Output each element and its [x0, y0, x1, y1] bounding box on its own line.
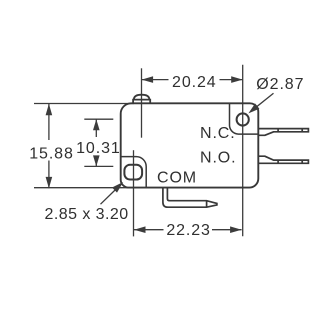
COM terminal (bent blade) — [163, 187, 217, 207]
N.C. mounting hole circle (Ø2.87) — [237, 113, 249, 125]
svg-text:COM: COM — [157, 169, 197, 186]
plunger button on body top — [133, 95, 150, 104]
N.C. terminal blade — [258, 129, 308, 136]
wire centerline through COM slot (22.23 left extension) — [133, 150, 135, 236]
svg-text:20.24: 20.24 — [172, 74, 217, 91]
dimension 15.88 line — [48, 104, 50, 140]
dimension 20.24 line — [142, 79, 169, 81]
wire bottom extension line for 15.88 — [34, 187, 134, 189]
dimension 22.23 line — [134, 229, 164, 231]
switch body outline — [121, 103, 259, 187]
svg-text:22.23: 22.23 — [166, 222, 211, 239]
COM slot hole (2.85 x 3.20) — [124, 165, 142, 180]
COM slot boss contour — [121, 157, 147, 188]
svg-text:N.C.: N.C. — [200, 125, 236, 142]
wire centerline through N.C. hole (20.24/22.23 right extension) — [242, 65, 244, 236]
svg-text:Ø2.87: Ø2.87 — [256, 76, 304, 93]
svg-text:15.88: 15.88 — [29, 145, 74, 162]
dimension 10.31 line — [95, 119, 97, 137]
wire top extension line for 15.88 — [34, 103, 134, 105]
dimension leader 2.85 x 3.20 — [101, 189, 117, 205]
wire centerline through plunger (20.24 left extension) — [141, 68, 143, 137]
N.O. terminal blade — [258, 156, 308, 163]
svg-text:10.31: 10.31 — [76, 140, 121, 157]
svg-text:N.O.: N.O. — [200, 149, 237, 166]
dimension 10.31 ticks — [84, 118, 113, 120]
dimension leader Ø2.87 — [253, 93, 274, 110]
svg-text:2.85 x 3.20: 2.85 x 3.20 — [45, 206, 129, 223]
N.C. hole boss contour — [230, 103, 259, 134]
